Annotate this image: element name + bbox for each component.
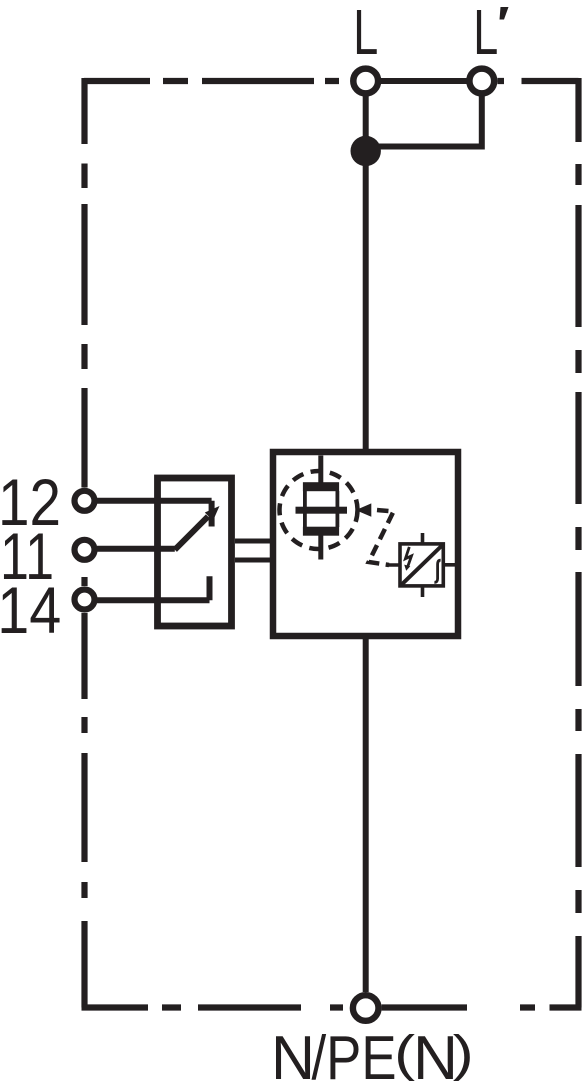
svg-text:): ) (453, 1026, 474, 1082)
svg-text:L: L (353, 0, 378, 68)
svg-text:N: N (271, 1023, 315, 1091)
svg-text:L: L (473, 0, 498, 68)
svg-text:/PE: /PE (312, 1023, 397, 1091)
svg-text:N: N (413, 1023, 458, 1091)
svg-text:14: 14 (0, 573, 61, 647)
